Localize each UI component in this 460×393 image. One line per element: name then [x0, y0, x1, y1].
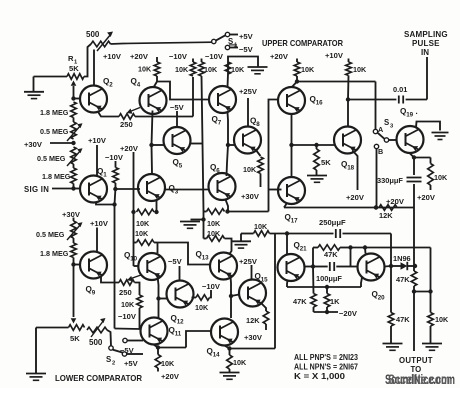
svg-text:10: 10: [130, 256, 137, 263]
svg-text:13: 13: [202, 255, 209, 262]
svg-text:12: 12: [177, 319, 184, 326]
svg-text:SAMPLING: SAMPLING: [404, 30, 448, 39]
svg-text:UPPER COMPARATOR: UPPER COMPARATOR: [262, 39, 343, 48]
svg-text:B: B: [378, 147, 383, 156]
svg-text:+25V: +25V: [239, 257, 258, 266]
svg-text:10K: 10K: [207, 229, 221, 238]
svg-text:8: 8: [256, 121, 260, 128]
svg-text:11: 11: [175, 331, 182, 338]
svg-text:+20V: +20V: [417, 193, 436, 202]
svg-text:+20V: +20V: [270, 52, 289, 61]
svg-text:330μμF: 330μμF: [377, 176, 403, 185]
svg-text:10K: 10K: [136, 219, 150, 228]
svg-text:+25V: +25V: [239, 87, 258, 96]
svg-text:250: 250: [120, 120, 133, 129]
svg-text:10K: 10K: [243, 165, 257, 174]
svg-text:.: .: [416, 107, 418, 116]
svg-text:SIG IN: SIG IN: [24, 185, 49, 194]
svg-text:2: 2: [109, 82, 113, 89]
svg-text:6: 6: [216, 168, 220, 175]
svg-text:LOWER COMPARATOR: LOWER COMPARATOR: [55, 374, 142, 383]
svg-text:10K: 10K: [434, 173, 448, 182]
svg-text:+5V: +5V: [239, 32, 254, 41]
svg-text:5K: 5K: [69, 64, 79, 73]
svg-text:10K: 10K: [138, 65, 152, 74]
svg-text:500: 500: [86, 30, 100, 39]
svg-text:−10V: −10V: [169, 52, 188, 61]
svg-text:12K: 12K: [246, 316, 260, 325]
svg-text:1.8 MEG: 1.8 MEG: [40, 249, 69, 258]
svg-text:16: 16: [316, 100, 323, 107]
svg-text:1: 1: [103, 172, 107, 179]
svg-text:1.8 MEG: 1.8 MEG: [40, 108, 69, 117]
svg-text:10K: 10K: [135, 229, 149, 238]
svg-text:ALL NPN'S = 2NI67: ALL NPN'S = 2NI67: [294, 363, 358, 372]
svg-text:14: 14: [213, 352, 220, 359]
svg-text:+20V: +20V: [161, 372, 180, 381]
svg-text:18: 18: [347, 165, 354, 172]
svg-text:+30V: +30V: [244, 333, 263, 342]
svg-text:0.01: 0.01: [393, 85, 407, 94]
svg-text:10K: 10K: [233, 358, 247, 367]
svg-text:0.5 MEG: 0.5 MEG: [37, 154, 66, 163]
svg-text:19: 19: [406, 112, 413, 119]
svg-text:17: 17: [291, 218, 298, 225]
svg-text:5K: 5K: [70, 334, 80, 343]
svg-text:+20V: +20V: [130, 52, 149, 61]
svg-text:−20V: −20V: [339, 309, 358, 318]
svg-text:10K: 10K: [161, 359, 175, 368]
svg-text:+10V: +10V: [88, 136, 107, 145]
svg-text:S: S: [228, 37, 233, 46]
svg-text:1N96: 1N96: [393, 254, 411, 263]
svg-text:S: S: [384, 118, 389, 127]
svg-text:10K: 10K: [195, 303, 209, 312]
svg-text:10K: 10K: [254, 222, 268, 231]
svg-text:+30V: +30V: [24, 140, 43, 149]
svg-text:+30V: +30V: [62, 210, 81, 219]
svg-text:3: 3: [175, 189, 179, 196]
svg-text:10K: 10K: [121, 300, 135, 309]
svg-text:47K: 47K: [293, 297, 307, 306]
svg-text:ALL PNP'S = 2NI23: ALL PNP'S = 2NI23: [294, 353, 359, 362]
svg-text:+20V: +20V: [120, 144, 139, 153]
svg-text:5K: 5K: [321, 158, 331, 167]
svg-text:−5V: −5V: [120, 346, 135, 355]
svg-text:12K: 12K: [379, 211, 393, 220]
svg-text:10K: 10K: [207, 219, 221, 228]
svg-text:2: 2: [112, 360, 115, 366]
svg-text:+20V: +20V: [346, 193, 365, 202]
svg-text:Sccelite.com: Sccelite.com: [388, 372, 450, 387]
svg-text:OUTPUT: OUTPUT: [399, 356, 433, 365]
svg-text:10K: 10K: [204, 65, 218, 74]
svg-text:47K: 47K: [324, 250, 338, 259]
svg-text:21: 21: [300, 246, 307, 253]
svg-text:47K: 47K: [396, 275, 410, 284]
svg-text:−10V: −10V: [202, 282, 221, 291]
svg-text:250: 250: [119, 288, 132, 297]
svg-text:S: S: [106, 355, 111, 364]
svg-text:0.5 MEG: 0.5 MEG: [36, 230, 65, 239]
svg-text:9: 9: [92, 290, 96, 297]
svg-text:−5V: −5V: [168, 257, 183, 266]
svg-text:500: 500: [89, 338, 103, 347]
svg-text:−5V: −5V: [239, 45, 254, 54]
svg-text:IN: IN: [421, 48, 429, 57]
svg-text:10K: 10K: [435, 315, 449, 324]
svg-text:+5V: +5V: [124, 359, 139, 368]
svg-text:+10V: +10V: [325, 51, 344, 60]
svg-text:1.8 MEG: 1.8 MEG: [42, 172, 71, 181]
svg-text:47K: 47K: [396, 315, 410, 324]
svg-text:A: A: [378, 125, 383, 134]
svg-text:250μμF: 250μμF: [319, 218, 346, 227]
svg-text:−10V: −10V: [105, 153, 124, 162]
svg-text:7: 7: [218, 120, 222, 127]
svg-text:−5V: −5V: [170, 103, 185, 112]
svg-text:−10V: −10V: [118, 312, 137, 321]
svg-text:10K: 10K: [353, 65, 367, 74]
svg-text:100μμF: 100μμF: [316, 274, 342, 283]
svg-text:10K: 10K: [301, 65, 315, 74]
svg-text:0.5 MEG: 0.5 MEG: [40, 127, 69, 136]
svg-text:15: 15: [261, 277, 268, 284]
svg-text:5: 5: [179, 163, 183, 170]
svg-text:4: 4: [137, 82, 141, 89]
svg-text:−10V: −10V: [205, 52, 224, 61]
svg-text:20: 20: [378, 295, 385, 302]
svg-text:10K: 10K: [175, 65, 189, 74]
svg-text:PULSE: PULSE: [412, 39, 440, 48]
svg-text:+10V: +10V: [90, 219, 109, 228]
svg-text:10K: 10K: [231, 65, 245, 74]
svg-text:+30V: +30V: [241, 192, 260, 201]
svg-text:K = X 1,000: K = X 1,000: [294, 372, 346, 381]
svg-text:1K: 1K: [330, 297, 340, 306]
svg-text:+10V: +10V: [103, 52, 122, 61]
svg-text:+20V: +20V: [386, 197, 405, 206]
